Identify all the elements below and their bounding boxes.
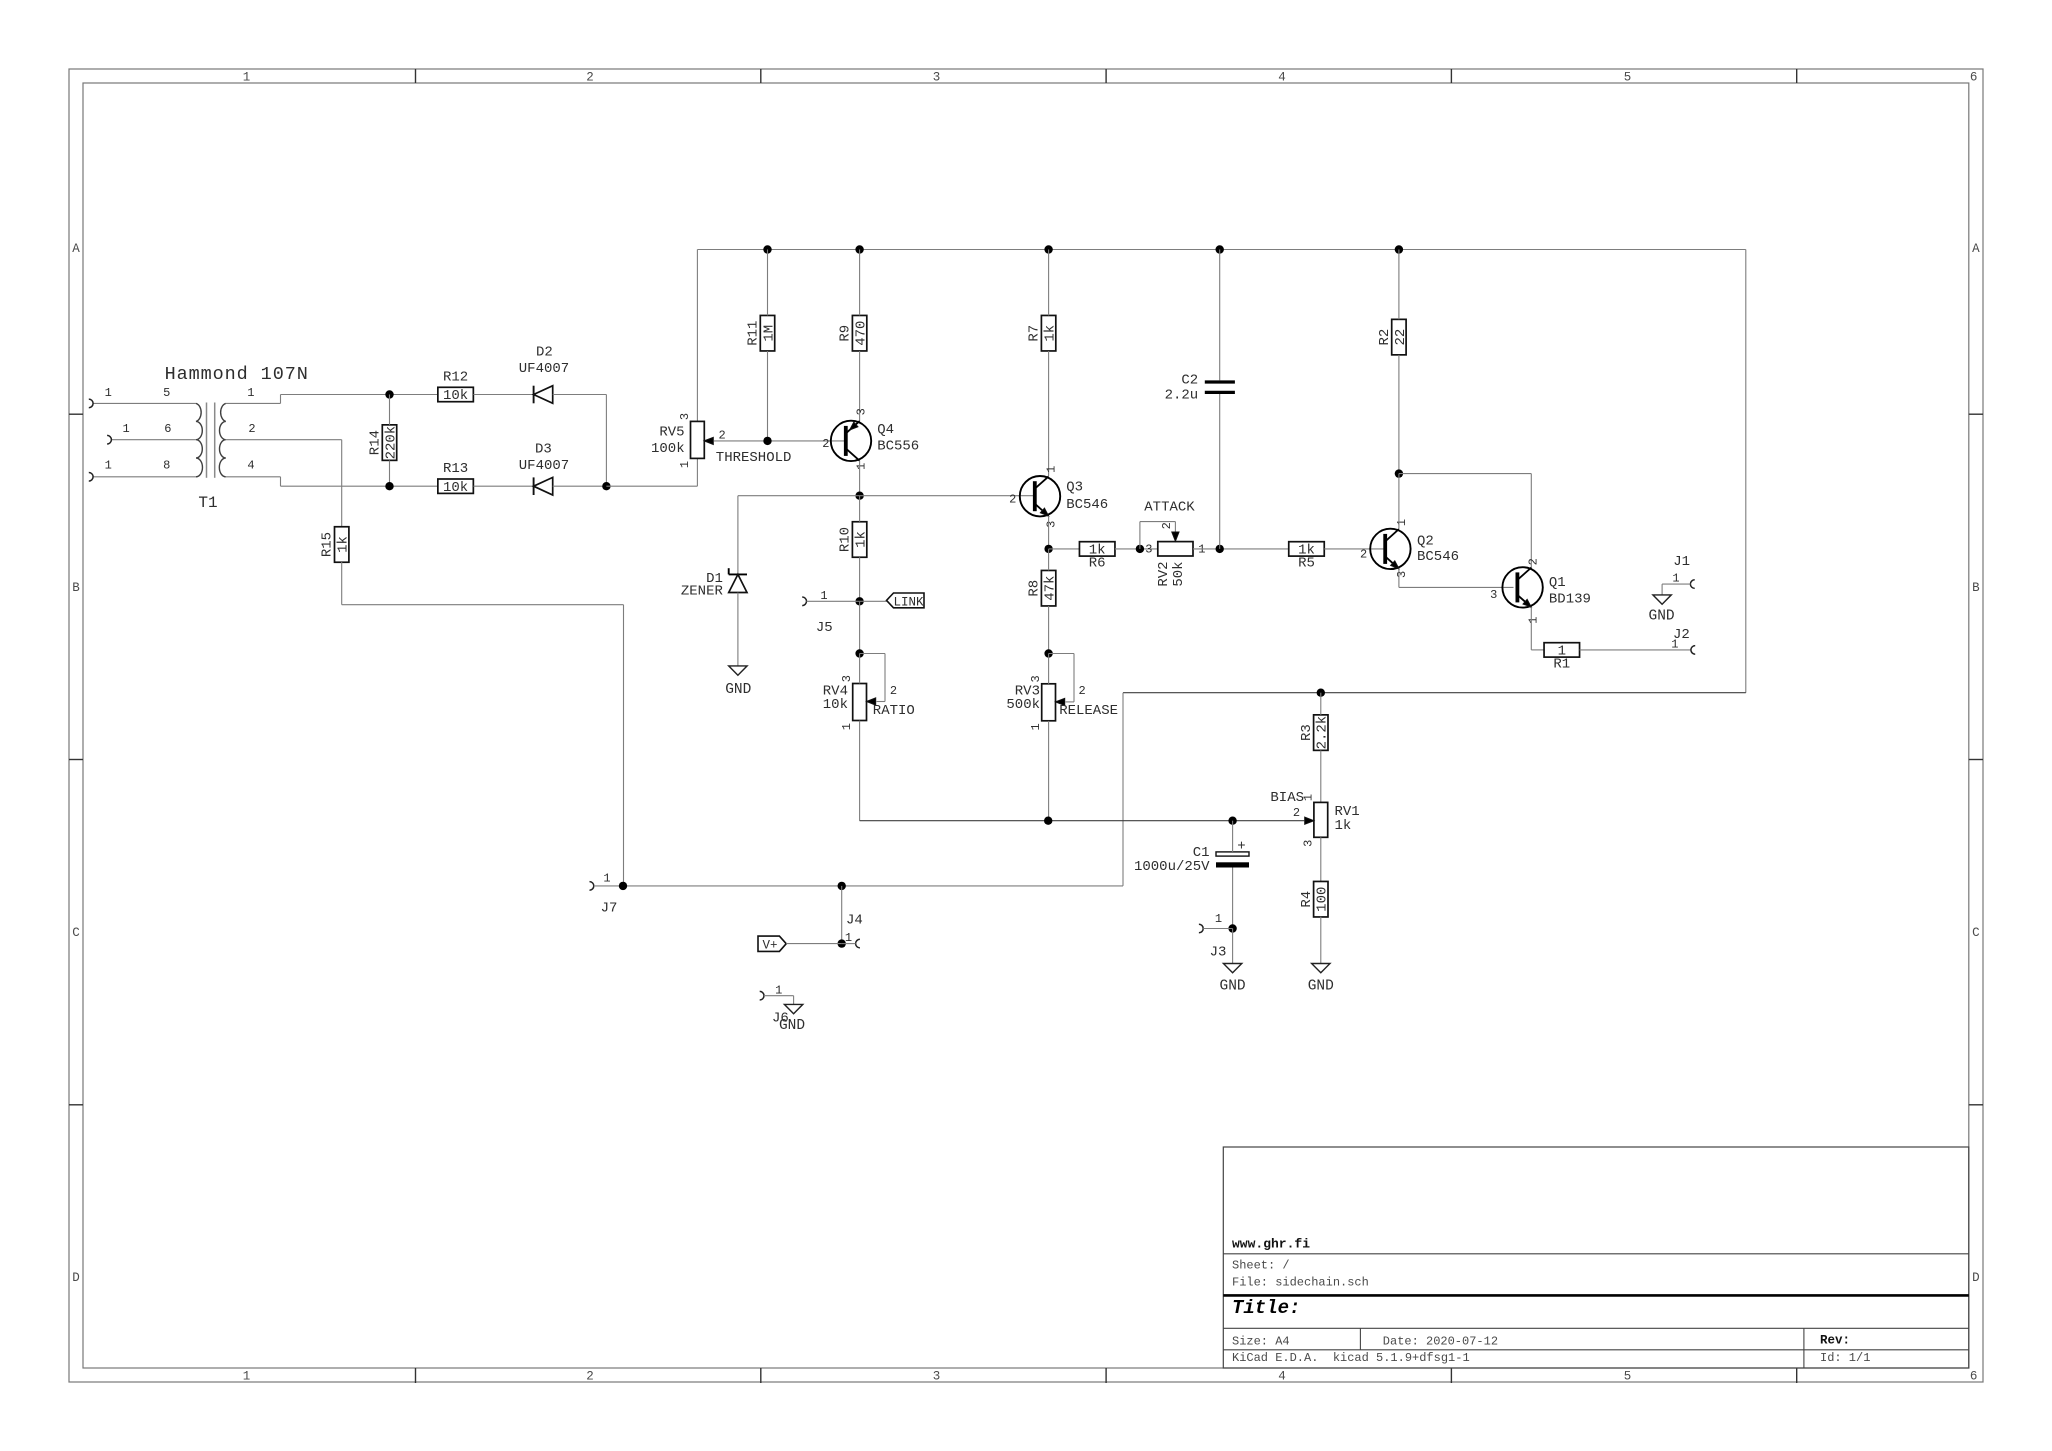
svg-text:50k: 50k — [1171, 561, 1187, 586]
wire R9 bottom to Q4 emitter — [859, 351, 861, 421]
svg-text:BIAS: BIAS — [1270, 790, 1304, 806]
wire V+ top rail — [697, 249, 1745, 251]
wire R8 top — [1048, 549, 1050, 571]
node junction RV3 top — [1044, 649, 1052, 657]
title block row line under www.ghr.fi — [1223, 1253, 1969, 1255]
svg-text:1: 1 — [1198, 543, 1205, 557]
wire down to J7 row — [623, 605, 625, 886]
node junction rectifier output — [602, 482, 610, 490]
svg-text:GND: GND — [779, 1018, 805, 1034]
node junction RV3 bottom BIAS — [1044, 817, 1052, 825]
wire R5 to Q2 base — [1324, 548, 1385, 550]
wire loop to Q1 collector — [1399, 473, 1531, 475]
wire RV4 wiper loop down — [884, 654, 886, 702]
wire RV3 pin3 stub — [1048, 654, 1050, 684]
svg-text:C: C — [72, 926, 80, 940]
wire R10 top — [859, 496, 861, 522]
svg-text:5: 5 — [1624, 71, 1632, 85]
svg-text:3: 3 — [933, 1370, 941, 1384]
svg-text:J7: J7 — [601, 901, 618, 917]
transistor Q4 BC556 — [831, 421, 871, 461]
svg-text:1: 1 — [122, 422, 129, 436]
wire pin1 row to R12 — [281, 394, 438, 396]
wire RV3 pin1 down — [1048, 721, 1050, 821]
wire Q1 emitter down — [1530, 607, 1532, 650]
svg-text:3: 3 — [933, 71, 941, 85]
wire Q1 collector down — [1530, 474, 1532, 569]
svg-text:R6: R6 — [1089, 556, 1106, 572]
title block thick line above Title — [1223, 1294, 1969, 1297]
wire T1 pin2 down to R15 — [341, 440, 343, 527]
transistor Q1 BD139 — [1502, 567, 1542, 607]
node junction R3 top — [1317, 689, 1325, 697]
svg-text:10k: 10k — [823, 697, 848, 713]
ground symbol below R4 — [1312, 964, 1330, 973]
svg-text:2: 2 — [719, 429, 726, 443]
svg-text:5: 5 — [1624, 1370, 1632, 1384]
diode D2 — [533, 386, 535, 404]
svg-text:100: 100 — [1315, 887, 1331, 912]
svg-text:R12: R12 — [443, 370, 468, 386]
svg-text:BD139: BD139 — [1549, 591, 1591, 607]
wire Q2 collector up — [1398, 474, 1400, 529]
svg-text:1: 1 — [603, 872, 610, 886]
svg-text:1: 1 — [243, 1370, 251, 1384]
svg-text:Title:: Title: — [1232, 1297, 1300, 1319]
wire R9 top — [859, 250, 861, 316]
wire J7 row — [623, 885, 1123, 887]
svg-text:Id: 1/1: Id: 1/1 — [1820, 1351, 1870, 1365]
svg-text:ATTACK: ATTACK — [1144, 499, 1195, 515]
title block outline — [1223, 1147, 1969, 1368]
node junction J3 — [1228, 924, 1236, 932]
node junction rail R2 — [1395, 245, 1403, 253]
wire RV2 wiper down to arrow — [1174, 522, 1176, 532]
svg-text:GND: GND — [1220, 979, 1246, 995]
wire R15 row right — [342, 604, 624, 606]
transformer T1 pin 5 — [93, 402, 196, 404]
svg-text:GND: GND — [1649, 608, 1675, 624]
wire RV4 pin1 down — [859, 721, 861, 821]
svg-text:R5: R5 — [1298, 556, 1315, 572]
svg-text:2.2u: 2.2u — [1165, 388, 1199, 404]
svg-text:R15: R15 — [320, 532, 336, 557]
resistor R7 — [1041, 315, 1055, 351]
svg-text:1: 1 — [105, 386, 112, 400]
wire RV4 wiper loop to arrow — [877, 701, 886, 703]
svg-text:3: 3 — [1045, 521, 1059, 528]
svg-text:J5: J5 — [816, 620, 833, 636]
wire R8 bottom — [1048, 606, 1050, 654]
svg-text:File: sidechain.sch: File: sidechain.sch — [1232, 1275, 1369, 1289]
wire RV2 wiper riser — [1139, 522, 1141, 549]
svg-text:A: A — [72, 242, 80, 256]
node junction RV2 pin3 — [1136, 545, 1144, 553]
node junction RV4 top — [855, 649, 863, 657]
connector J5 — [802, 597, 806, 606]
svg-text:3: 3 — [1301, 840, 1315, 847]
wire junction to LINK flag — [860, 600, 887, 602]
resistor R8 — [1041, 570, 1055, 606]
svg-text:1: 1 — [1672, 571, 1679, 585]
node junction J4 drop — [838, 882, 846, 890]
svg-text:10k: 10k — [443, 480, 468, 496]
connector pin at T1 pin 6 — [107, 435, 111, 444]
svg-text:ZENER: ZENER — [681, 583, 724, 599]
wire RV3 wiper loop to arrow — [1066, 701, 1075, 703]
wire D1 top corner — [737, 496, 739, 575]
svg-text:R10: R10 — [838, 527, 854, 552]
svg-text:Q4: Q4 — [877, 422, 894, 438]
wire J1 to ground — [1661, 584, 1663, 595]
svg-text:R2: R2 — [1377, 329, 1393, 346]
svg-text:R1: R1 — [1553, 657, 1570, 673]
wire J6 to ground — [793, 996, 795, 1005]
wire D1 anode to GND — [737, 593, 739, 666]
svg-text:A: A — [1972, 242, 1980, 256]
svg-text:GND: GND — [725, 682, 751, 698]
title block Size/Date divider — [1359, 1328, 1361, 1350]
svg-text:3: 3 — [1395, 571, 1409, 578]
svg-text:2: 2 — [1009, 493, 1016, 507]
transformer T1 pin 4 — [226, 476, 281, 478]
node junction rail C2 — [1216, 245, 1224, 253]
node junction rail R7 — [1044, 245, 1052, 253]
wire R13 to D3 — [473, 485, 533, 487]
svg-text:1k: 1k — [336, 536, 352, 553]
svg-text:470: 470 — [854, 321, 870, 346]
title block line below Title — [1223, 1327, 1969, 1329]
svg-text:+: + — [1237, 839, 1245, 855]
svg-text:UF4007: UF4007 — [519, 458, 569, 474]
svg-text:1: 1 — [1029, 723, 1043, 730]
resistor R5 — [1289, 542, 1325, 556]
connector J3 — [1199, 924, 1203, 933]
diode D3 — [533, 477, 535, 495]
ground symbol below D1 — [729, 666, 747, 675]
svg-text:5: 5 — [163, 386, 170, 400]
node junction Q4 collector — [855, 492, 863, 500]
wire V+ rail right side down — [1745, 250, 1747, 693]
net flag LINK — [887, 593, 925, 608]
svg-text:V+: V+ — [763, 938, 778, 952]
wire R2 bottom — [1398, 355, 1400, 474]
transformer T1 pin 2 — [226, 439, 342, 441]
wire J5 junction down — [859, 601, 861, 653]
svg-text:RV2: RV2 — [1156, 561, 1172, 586]
node junction J7 — [619, 882, 627, 890]
svg-text:1k: 1k — [854, 531, 870, 548]
wire D2 to corner — [553, 394, 607, 396]
wire T1 pin1 jog up — [280, 395, 282, 404]
svg-text:D2: D2 — [536, 345, 553, 361]
wire junction to R6 — [1049, 548, 1080, 550]
wire R10 bottom — [859, 557, 861, 601]
wire RV5 wiper to junction — [714, 440, 846, 442]
wire RV5 pin1 stub — [696, 458, 698, 486]
resistor R12 — [438, 387, 474, 401]
svg-text:1: 1 — [840, 723, 854, 730]
wire RV4 wiper loop top — [860, 653, 885, 655]
wire Q3 base row — [738, 495, 1035, 497]
svg-text:R3: R3 — [1299, 724, 1315, 741]
svg-text:1: 1 — [820, 589, 827, 603]
wire T1 pin4 jog down — [280, 477, 282, 486]
svg-text:Q2: Q2 — [1417, 534, 1434, 550]
node junction rail R11 — [763, 245, 771, 253]
node junction R14 top — [385, 390, 393, 398]
svg-text:R14: R14 — [368, 430, 384, 455]
wire R3 top stub — [1320, 693, 1322, 715]
svg-text:6: 6 — [1970, 71, 1978, 85]
resistor R9 — [852, 315, 866, 351]
wire R14 top stub — [389, 395, 391, 425]
wire J3 junction to ground — [1232, 929, 1234, 964]
wire D3 to junction — [553, 485, 607, 487]
wire feedback down — [1122, 693, 1124, 886]
svg-text:GND: GND — [1308, 979, 1334, 995]
svg-text:6: 6 — [1970, 1370, 1978, 1384]
diode D1 ZENER — [729, 573, 747, 575]
svg-text:1: 1 — [775, 983, 782, 997]
wire RV4 pin3 stub — [859, 654, 861, 684]
svg-text:4: 4 — [1278, 71, 1286, 85]
wire corner down to D3 row — [605, 395, 607, 487]
svg-text:2: 2 — [1160, 522, 1174, 529]
svg-text:2: 2 — [1527, 558, 1541, 565]
svg-text:8: 8 — [163, 459, 170, 473]
resistor R1 — [1544, 643, 1580, 657]
svg-text:RATIO: RATIO — [873, 703, 915, 719]
wire R6 to RV2 — [1115, 548, 1158, 550]
connector pin at T1 pin 8 — [89, 473, 93, 482]
svg-text:1000u/25V: 1000u/25V — [1134, 859, 1210, 875]
svg-text:2: 2 — [586, 71, 594, 85]
wire R15 bottom down — [341, 562, 343, 605]
wire pin4 row to R13 — [281, 485, 438, 487]
transistor Q2 BC546 — [1370, 529, 1410, 569]
svg-text:R11: R11 — [746, 321, 762, 346]
svg-text:J3: J3 — [1210, 944, 1227, 960]
svg-text:THRESHOLD: THRESHOLD — [716, 450, 792, 466]
transformer T1 — [196, 403, 202, 476]
wire feedback row — [1123, 692, 1746, 694]
wire R1 to J2 — [1580, 649, 1691, 651]
wire R14 bottom stub — [389, 460, 391, 486]
svg-text:2.2k: 2.2k — [1315, 716, 1331, 750]
node junction C2 bottom — [1216, 545, 1224, 553]
resistor R4 — [1314, 881, 1328, 917]
svg-text:1: 1 — [1671, 638, 1678, 652]
svg-text:KiCad E.D.A. kicad 5.1.9+dfsg: KiCad E.D.A. kicad 5.1.9+dfsg1-1 — [1232, 1351, 1470, 1365]
resistor R14 — [382, 425, 396, 461]
wire junction to RV5 pin1 corner — [606, 485, 697, 487]
svg-text:3: 3 — [840, 675, 854, 682]
svg-text:Rev:: Rev: — [1820, 1334, 1850, 1348]
svg-text:1: 1 — [678, 461, 692, 468]
svg-text:47k: 47k — [1043, 576, 1059, 601]
wire RV5 pin3 up to rail — [696, 250, 698, 422]
wire R7 bottom to Q3 collector — [1048, 351, 1050, 476]
border row ticks — [69, 413, 83, 415]
svg-text:2: 2 — [1293, 806, 1300, 820]
node junction Q3 emitter — [1044, 545, 1052, 553]
svg-text:1: 1 — [855, 463, 869, 470]
svg-text:1: 1 — [1215, 912, 1222, 926]
potentiometer RV5 100k THRESHOLD — [691, 421, 705, 458]
connector J2 — [1691, 646, 1695, 655]
wire C1 bottom — [1232, 868, 1234, 929]
wire RV2 wiper top — [1140, 521, 1176, 523]
svg-text:C2: C2 — [1181, 372, 1198, 388]
svg-text:J1: J1 — [1673, 554, 1690, 570]
transformer T1 pin 8 — [93, 476, 196, 478]
wire Q2 emitter to Q1 base — [1399, 586, 1514, 588]
wire J4 drop down — [841, 886, 843, 944]
transformer T1 pin 1 — [226, 402, 281, 404]
connector J6 — [760, 991, 764, 1000]
svg-text:B: B — [72, 581, 80, 595]
connector J4 — [856, 939, 860, 948]
title block line below Size row — [1223, 1349, 1969, 1351]
capacitor C2 2.2u — [1205, 380, 1235, 383]
svg-text:10k: 10k — [443, 388, 468, 404]
node junction rail R9 — [855, 245, 863, 253]
wire V+ flag to junction — [786, 943, 842, 945]
resistor R11 — [760, 315, 774, 351]
svg-text:RELEASE: RELEASE — [1059, 703, 1118, 719]
svg-text:1: 1 — [243, 71, 251, 85]
svg-text:1M: 1M — [761, 325, 777, 342]
wire C2 top — [1219, 250, 1221, 381]
border column ticks — [415, 69, 417, 83]
svg-text:1: 1 — [247, 386, 254, 400]
svg-text:www.ghr.fi: www.ghr.fi — [1232, 1237, 1310, 1252]
svg-text:2: 2 — [890, 684, 897, 698]
svg-text:BC546: BC546 — [1417, 549, 1459, 565]
svg-text:220k: 220k — [383, 426, 399, 460]
ground symbol below J6 — [784, 1004, 802, 1013]
svg-text:Q3: Q3 — [1066, 480, 1083, 496]
svg-text:RV5: RV5 — [659, 424, 684, 440]
wire RV1 bottom to R4 — [1320, 837, 1322, 881]
svg-text:4: 4 — [1278, 1370, 1286, 1384]
resistor R6 — [1079, 542, 1115, 556]
svg-text:500k: 500k — [1006, 697, 1040, 713]
connector J1 — [1690, 580, 1694, 589]
svg-text:BC546: BC546 — [1066, 497, 1108, 513]
svg-text:22: 22 — [1393, 329, 1409, 346]
resistor R10 — [852, 522, 866, 558]
ground symbol below J1 — [1653, 595, 1671, 604]
svg-text:Size: A4: Size: A4 — [1232, 1334, 1290, 1348]
svg-text:1: 1 — [1045, 466, 1059, 473]
svg-text:100k: 100k — [651, 441, 685, 457]
svg-text:1k: 1k — [1335, 818, 1352, 834]
potentiometer RV2 50k ATTACK — [1158, 542, 1193, 556]
ground symbol below J3 — [1223, 964, 1241, 973]
svg-text:UF4007: UF4007 — [519, 361, 569, 377]
wire RV2 pin1 to R5 — [1193, 548, 1288, 550]
wire Q2 emitter down — [1398, 569, 1400, 588]
svg-text:2: 2 — [1079, 684, 1086, 698]
node junction R14 bottom — [385, 482, 393, 490]
svg-text:D3: D3 — [535, 441, 552, 457]
wire R7 top — [1048, 250, 1050, 316]
svg-text:2: 2 — [248, 422, 255, 436]
potentiometer RV4 10k RATIO — [853, 684, 867, 721]
svg-text:Q1: Q1 — [1549, 575, 1566, 591]
svg-text:R7: R7 — [1027, 325, 1043, 342]
wire R12 to D2 — [473, 394, 533, 396]
wire R11 bottom — [767, 351, 769, 441]
potentiometer RV1 1k BIAS — [1314, 802, 1328, 837]
potentiometer RV3 500k RELEASE — [1042, 684, 1056, 721]
resistor R2 — [1392, 319, 1406, 355]
svg-text:2: 2 — [586, 1370, 594, 1384]
transistor Q3 BC546 — [1020, 476, 1060, 516]
svg-text:BC556: BC556 — [877, 439, 919, 455]
svg-text:R8: R8 — [1027, 580, 1043, 597]
power flag V+ — [758, 936, 786, 951]
svg-text:D: D — [72, 1271, 80, 1285]
resistor R3 — [1314, 715, 1328, 751]
svg-text:D: D — [1972, 1271, 1980, 1285]
svg-text:2: 2 — [822, 437, 829, 451]
wire R11 top — [767, 250, 769, 316]
capacitor C1 1000u/25V — [1216, 852, 1249, 856]
wire C2 bottom — [1219, 394, 1221, 549]
node junction V+ J4 — [838, 939, 846, 947]
wire RV3 wiper loop down — [1073, 654, 1075, 702]
svg-text:1: 1 — [1527, 616, 1541, 623]
svg-text:R13: R13 — [443, 461, 468, 477]
svg-text:Sheet: /: Sheet: / — [1232, 1259, 1290, 1273]
wire Q4 collector down — [859, 461, 861, 496]
svg-text:3: 3 — [1490, 588, 1497, 602]
wire Q1 emitter to R1 — [1531, 649, 1544, 651]
wire RV3 wiper loop top — [1049, 653, 1074, 655]
svg-text:B: B — [1972, 581, 1980, 595]
svg-text:R4: R4 — [1299, 891, 1315, 908]
wire R2 top — [1398, 250, 1400, 320]
svg-text:3: 3 — [1145, 543, 1152, 557]
svg-text:Hammond 107N: Hammond 107N — [165, 364, 309, 385]
node junction base Q4 — [763, 437, 771, 445]
svg-text:1k: 1k — [1043, 325, 1059, 342]
svg-text:LINK: LINK — [894, 595, 925, 609]
resistor R15 — [335, 527, 349, 563]
svg-text:1: 1 — [845, 931, 852, 945]
svg-text:Date: 2020-07-12: Date: 2020-07-12 — [1383, 1334, 1498, 1348]
node junction J5 LINK — [855, 597, 863, 605]
svg-text:4: 4 — [247, 459, 254, 473]
wire BIAS row — [860, 820, 1305, 822]
connector J7 — [590, 882, 594, 891]
transformer T1 pin 6 — [111, 439, 196, 441]
node junction Q2 collector net — [1395, 469, 1403, 477]
svg-text:3: 3 — [855, 408, 869, 415]
svg-text:1: 1 — [105, 459, 112, 473]
svg-text:T1: T1 — [198, 494, 217, 512]
wire C1 top stub — [1232, 821, 1234, 852]
transformer T1 core — [206, 403, 208, 478]
node junction C1 top — [1228, 817, 1236, 825]
svg-text:R9: R9 — [838, 325, 854, 342]
svg-text:J4: J4 — [846, 913, 863, 929]
svg-text:3: 3 — [1029, 675, 1043, 682]
wire R4 bottom to ground — [1320, 917, 1322, 964]
